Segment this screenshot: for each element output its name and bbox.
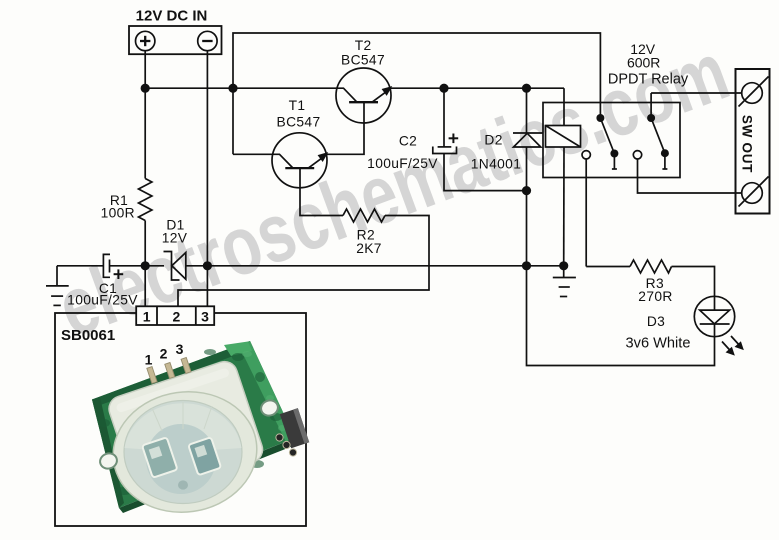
svg-text:100uF/25V: 100uF/25V <box>67 293 138 308</box>
svg-text:3: 3 <box>176 341 184 357</box>
svg-text:C2: C2 <box>399 134 417 149</box>
svg-text:100uF/25V: 100uF/25V <box>367 156 438 171</box>
svg-text:3: 3 <box>201 309 209 325</box>
svg-text:1: 1 <box>145 352 153 368</box>
svg-text:DPDT Relay: DPDT Relay <box>608 72 689 88</box>
svg-text:SB0061: SB0061 <box>61 327 115 344</box>
svg-text:270R: 270R <box>638 289 672 304</box>
svg-text:SW OUT: SW OUT <box>740 115 755 173</box>
svg-text:2K7: 2K7 <box>356 241 382 256</box>
svg-text:BC547: BC547 <box>341 53 385 68</box>
svg-text:1: 1 <box>143 309 151 325</box>
svg-text:1N4001: 1N4001 <box>471 157 521 172</box>
svg-text:12V: 12V <box>162 231 188 246</box>
svg-text:T2: T2 <box>355 38 372 53</box>
svg-text:2: 2 <box>173 309 181 325</box>
svg-text:12V DC IN: 12V DC IN <box>136 7 208 24</box>
svg-text:2: 2 <box>160 346 168 362</box>
svg-text:100R: 100R <box>101 206 135 221</box>
svg-text:T1: T1 <box>289 98 306 113</box>
svg-text:D3: D3 <box>647 314 665 329</box>
svg-text:D2: D2 <box>484 133 502 148</box>
svg-text:3v6 White: 3v6 White <box>626 336 691 352</box>
svg-text:BC547: BC547 <box>277 115 321 130</box>
svg-text:600R: 600R <box>627 55 660 71</box>
